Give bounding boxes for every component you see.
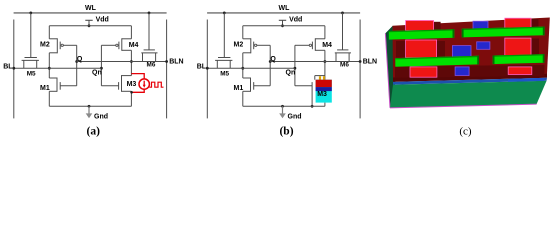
- svg-text:BLN: BLN: [363, 58, 377, 65]
- node ground junction: [281, 105, 284, 108]
- transistor M2: [49, 38, 76, 53]
- node Vdd rail junction: [88, 24, 91, 27]
- node Q junction: [75, 60, 78, 63]
- svg-text:M1: M1: [234, 85, 244, 92]
- node right column junction on upper wire: [324, 60, 327, 63]
- node defect ground junction: [311, 105, 314, 108]
- wire left inverter drain column: [48, 53, 50, 78]
- wire M1 source column to ground: [242, 91, 244, 106]
- wire lower storage node Qn: [207, 67, 295, 69]
- node Qn junction: [294, 67, 297, 70]
- nwell front band (blue): [393, 78, 547, 85]
- svg-text:(b): (b): [279, 125, 293, 137]
- svg-text:Q: Q: [77, 56, 83, 63]
- svg-text:M6: M6: [340, 62, 349, 69]
- transistor M4: [101, 38, 131, 51]
- wire M5 gate lead from WL: [30, 13, 32, 58]
- dark shadow right of mid-left diffusion: [437, 41, 445, 58]
- metal contact top-left (red): [406, 21, 434, 31]
- wire M1 source column to ground: [48, 91, 50, 106]
- svg-text:Qn: Qn: [286, 70, 296, 77]
- wire left inverter gate coupling: [76, 45, 78, 86]
- transistor M6: [335, 50, 351, 62]
- wire M3 source column below defect box to ground: [324, 103, 326, 107]
- transistor M1: [243, 78, 270, 92]
- node Q-bar column junction on lower wire: [241, 67, 244, 70]
- diffusion mid-right (red): [505, 38, 531, 57]
- svg-text:M5: M5: [27, 70, 36, 77]
- svg-text:(c): (c): [459, 125, 472, 137]
- transistor M5: [22, 58, 39, 69]
- wire upper storage node Q: [270, 61, 360, 63]
- wire BL bit line vertical: [13, 20, 15, 119]
- svg-text:M3: M3: [127, 81, 137, 88]
- wire BLN bit line vertical: [359, 20, 361, 119]
- top face (dark red): [393, 18, 550, 78]
- svg-text:Vdd: Vdd: [289, 16, 302, 23]
- lower metal right (red): [508, 67, 532, 75]
- wire M3 drain stub into defect box: [324, 76, 326, 81]
- power Vdd symbol: [85, 19, 92, 21]
- wire right inverter gate coupling: [100, 45, 102, 86]
- transistor M1: [49, 78, 76, 92]
- wire BL bit line vertical: [206, 20, 208, 119]
- svg-text:(a): (a): [86, 125, 100, 137]
- transistor M2: [243, 38, 270, 53]
- wire Vdd rail: [243, 25, 325, 27]
- svg-text:M3: M3: [317, 91, 327, 98]
- wire M2 source column from Vdd rail: [242, 26, 244, 39]
- power Vdd symbol: [279, 19, 286, 21]
- pulse waveform symbol (red): [149, 82, 163, 87]
- node BLN junction: [165, 60, 168, 63]
- wire M5 gate lead from WL: [223, 13, 225, 58]
- front bevel of top face (darker red): [393, 74, 547, 82]
- svg-text:Qn: Qn: [92, 70, 102, 77]
- wire M4 source column from Vdd rail: [130, 26, 132, 39]
- transistor M3 with defect: [295, 85, 312, 87]
- transistor M6: [141, 50, 157, 62]
- node Vdd rail junction: [281, 24, 284, 27]
- node WL junction right: [148, 12, 151, 15]
- node BL junction: [206, 67, 209, 70]
- node WL junction right: [341, 12, 344, 15]
- wire WL word line: [14, 12, 167, 14]
- transistor M5: [215, 58, 232, 69]
- left side face of substrate: [385, 26, 396, 108]
- dark shadow right of mid-right diffusion: [531, 39, 539, 58]
- wire right inverter gate coupling: [294, 45, 296, 86]
- node WL junction left: [29, 12, 32, 15]
- svg-text:BL: BL: [3, 64, 13, 71]
- node BL junction: [12, 67, 15, 70]
- node Q-bar column junction on lower wire: [48, 67, 51, 70]
- wire upper storage node Q: [77, 61, 167, 63]
- dark shadow left of mid-left diffusion: [396, 41, 406, 58]
- wire right inverter drain column: [130, 50, 132, 75]
- current source I1 fault injection (red): [131, 74, 149, 93]
- via mid-left-center (blue): [452, 46, 471, 57]
- wire M3 drain lead: [315, 75, 325, 77]
- transistor M3: [101, 75, 131, 92]
- wire BLN bit line vertical: [166, 20, 168, 119]
- bottom edge highlight (magenta): [390, 104, 537, 108]
- dark shadow right of top-left contact: [434, 22, 441, 31]
- wire M3 gate defect short to ground: [311, 82, 313, 106]
- wire Vdd rail: [49, 25, 131, 27]
- svg-text:M6: M6: [147, 62, 156, 69]
- ground symbol: [279, 106, 286, 118]
- node WL junction left: [223, 12, 226, 15]
- wire M4 source column from Vdd rail: [324, 26, 326, 39]
- lower via middle (blue): [455, 67, 469, 76]
- via top-middle (blue): [473, 21, 488, 29]
- svg-text:M2: M2: [234, 42, 244, 49]
- svg-text:BL: BL: [197, 64, 207, 71]
- lower metal row dark band: [395, 65, 545, 78]
- front face of substrate (green): [390, 81, 547, 108]
- defect box on M3 (damaged transistor): [316, 76, 332, 102]
- dark shadow right of top-right contact: [531, 19, 539, 28]
- poly word line bar row1 left (green): [389, 29, 455, 39]
- svg-text:Gnd: Gnd: [288, 113, 302, 120]
- node BLN junction: [359, 60, 362, 63]
- wire M6 gate lead from WL: [342, 13, 344, 50]
- wire M3 source column to ground: [130, 91, 132, 106]
- node fault source connection: [130, 91, 133, 94]
- svg-text:Gnd: Gnd: [94, 113, 108, 120]
- wire right inverter drain column: [324, 50, 326, 75]
- wire left inverter gate coupling: [269, 45, 271, 86]
- poly word line bar row1 right (green): [462, 27, 545, 38]
- svg-text:WL: WL: [85, 5, 97, 12]
- lower metal left (red): [410, 67, 437, 77]
- svg-text:M5: M5: [220, 70, 229, 77]
- wire ground rail: [49, 105, 131, 107]
- poly word line bar row2 left (green): [395, 56, 479, 67]
- metal contact top-right (red): [505, 18, 531, 28]
- wire lower storage node Qn: [14, 67, 102, 69]
- wire WL word line: [207, 12, 360, 14]
- figure (c): 3D SRAM cell layout render: [385, 18, 550, 108]
- node ground junction: [88, 105, 91, 108]
- node right column junction on upper wire: [130, 60, 133, 63]
- transistor M4: [295, 38, 325, 51]
- node Q junction: [269, 60, 272, 63]
- svg-text:M1: M1: [40, 85, 50, 92]
- svg-text:M2: M2: [40, 42, 50, 49]
- poly word line bar row2 right (green): [493, 54, 545, 64]
- wire M6 gate lead from WL: [148, 13, 150, 50]
- wire ground rail: [243, 105, 325, 107]
- diffusion mid-left (red): [406, 40, 437, 58]
- wire M2 source column from Vdd rail: [48, 26, 50, 39]
- wire left inverter drain column: [242, 53, 244, 78]
- ground symbol: [86, 106, 93, 118]
- node Qn junction: [100, 67, 103, 70]
- svg-text:BLN: BLN: [169, 58, 183, 65]
- via mid-center (blue): [477, 42, 490, 50]
- svg-text:M4: M4: [129, 42, 139, 49]
- svg-text:Vdd: Vdd: [96, 16, 109, 23]
- svg-text:Q: Q: [270, 56, 276, 63]
- svg-text:M4: M4: [322, 42, 332, 49]
- bright nwell strip under lower-right metal: [508, 78, 545, 82]
- svg-text:WL: WL: [279, 5, 291, 12]
